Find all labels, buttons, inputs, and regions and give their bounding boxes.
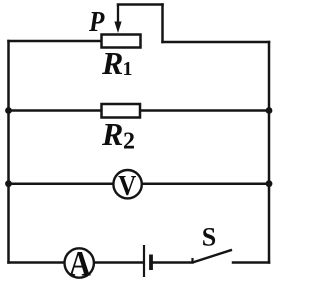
wire right vertical border xyxy=(268,42,271,263)
wire voltmeter row right xyxy=(142,182,269,185)
battery short thick plate xyxy=(149,255,153,271)
wire left vertical border xyxy=(7,41,10,263)
node dot left voltmeter row xyxy=(5,180,12,187)
wire battery to switch xyxy=(153,261,193,264)
node dot right voltmeter row xyxy=(266,180,273,187)
wire top-left horizontal (to R1 left terminal) xyxy=(9,40,103,43)
svg-text:1: 1 xyxy=(123,58,133,80)
svg-text:R: R xyxy=(101,45,123,81)
switch lever xyxy=(193,250,233,263)
wire top-right horizontal to right border xyxy=(163,41,270,44)
wire ammeter to battery xyxy=(94,261,143,264)
svg-text:P: P xyxy=(88,6,105,38)
resistor R2 body xyxy=(102,104,141,118)
ammeter A xyxy=(65,248,94,277)
svg-text:S: S xyxy=(202,222,216,251)
wire R2 row left xyxy=(9,109,103,112)
wire voltmeter row left xyxy=(9,182,114,185)
wire switch to bottom-right corner xyxy=(233,261,269,264)
svg-text:V: V xyxy=(118,170,136,202)
svg-text:A: A xyxy=(69,244,91,281)
wire wiper top horizontal xyxy=(118,3,163,6)
battery long plate xyxy=(143,245,145,277)
voltmeter V xyxy=(113,170,141,198)
potentiometer R1 body xyxy=(102,35,141,48)
wiper arrow stem P xyxy=(117,5,119,25)
wire R2 row right xyxy=(140,109,269,112)
node dot right R2 row xyxy=(266,107,273,114)
svg-text:R: R xyxy=(101,116,123,152)
svg-text:2: 2 xyxy=(123,129,135,155)
switch contact tick xyxy=(191,258,193,263)
wire wiper right vertical drop xyxy=(161,5,164,43)
node dot left R2 row xyxy=(5,107,12,114)
wire bottom left (to ammeter) xyxy=(9,261,65,264)
wiper arrowhead xyxy=(114,22,121,34)
